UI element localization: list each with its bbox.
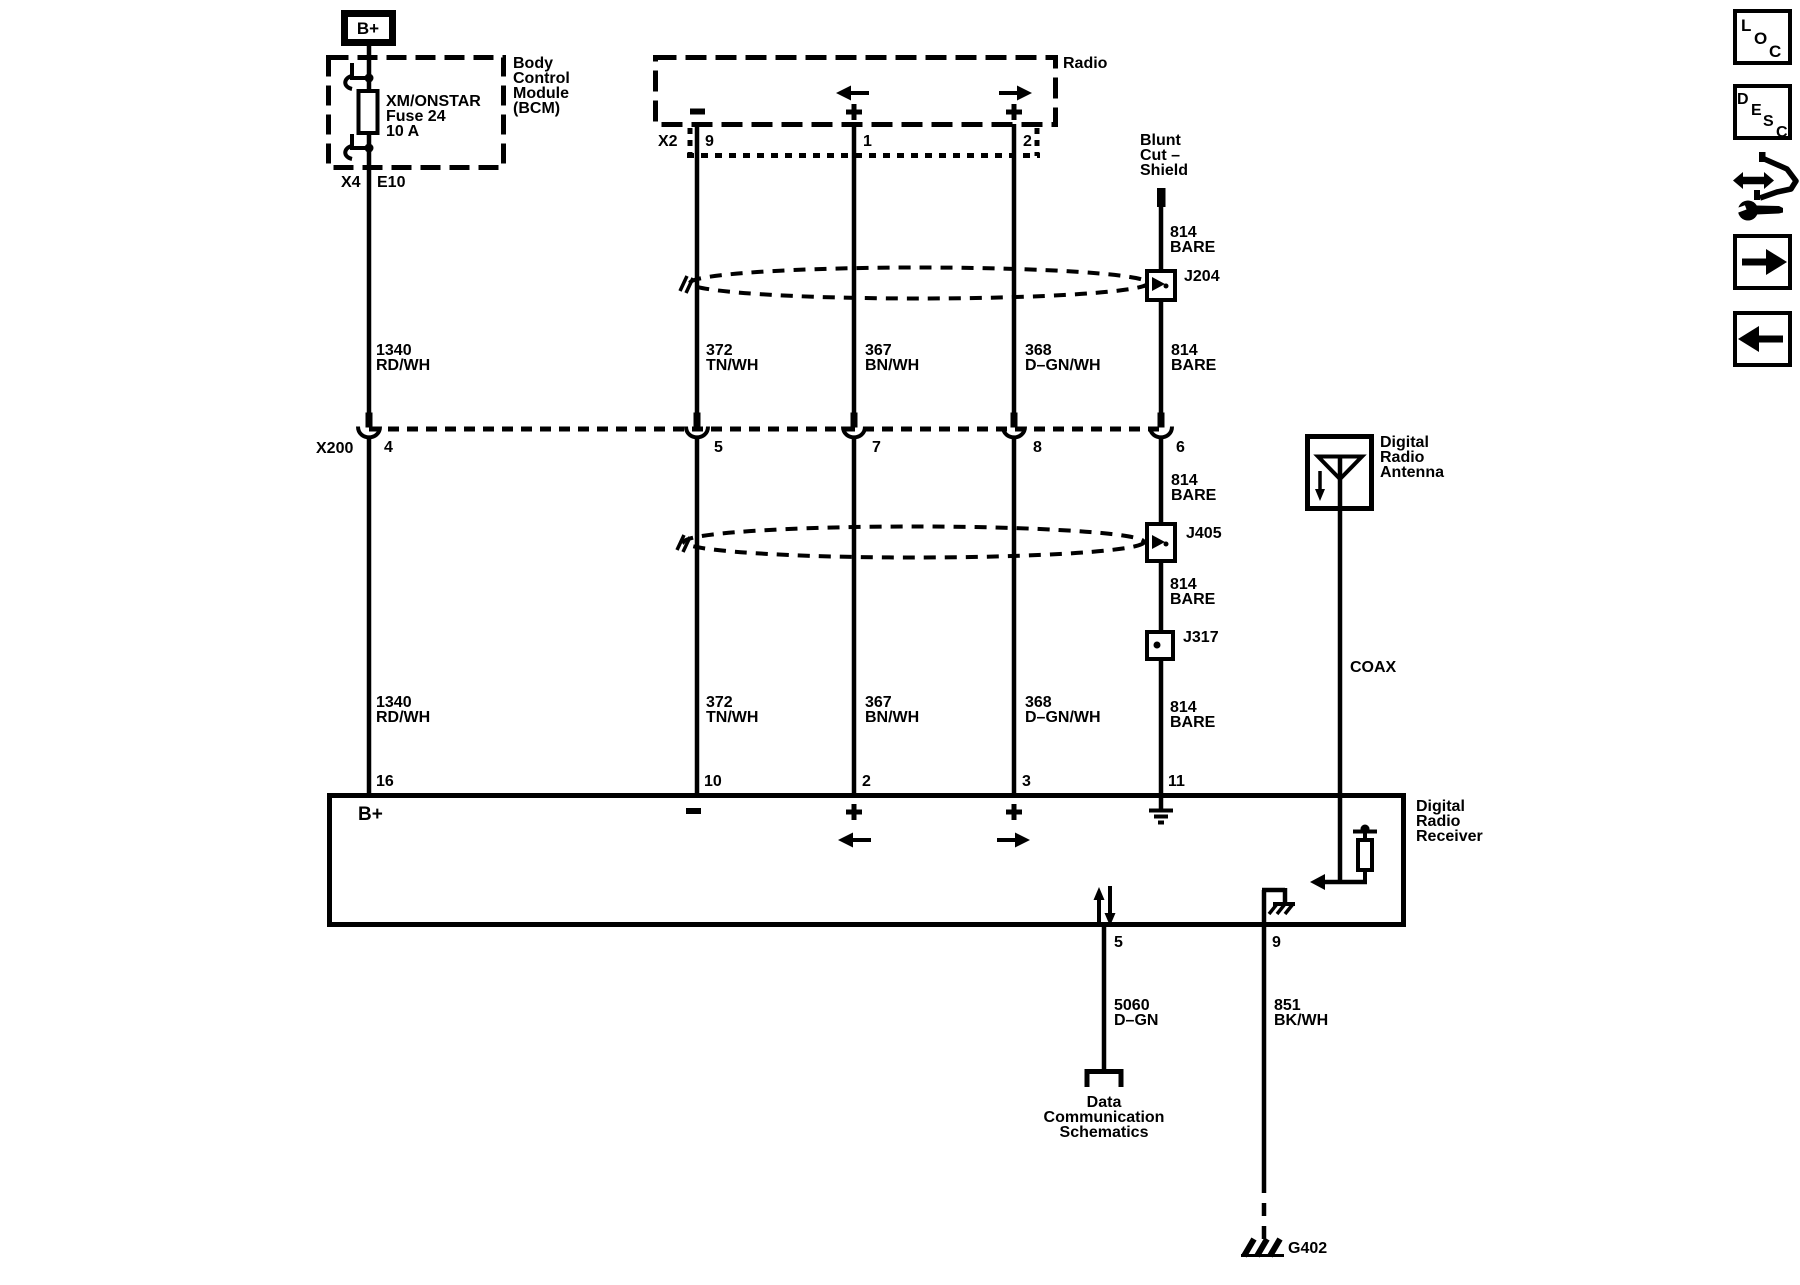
BCM dashed outline box bbox=[329, 58, 504, 168]
icon DESC box bbox=[1735, 86, 1790, 141]
label Digital Radio Antenna bbox=[1380, 434, 1444, 481]
ground G402 bbox=[1241, 1239, 1284, 1256]
wire labels row 2 bbox=[376, 694, 1216, 731]
coax wire antenna to receiver bbox=[1338, 509, 1343, 882]
radio connector X2 dotted face bbox=[687, 128, 1040, 156]
fuse clip terminal top bbox=[345, 63, 373, 89]
wire 372 TN/WH X200 to receiver pin 10 bbox=[695, 438, 700, 795]
svg-text:(BCM): (BCM) bbox=[513, 100, 560, 117]
twisted pair ellipse lower bbox=[677, 527, 1144, 558]
twisted pair ellipse upper bbox=[680, 268, 1148, 299]
svg-text:7: 7 bbox=[872, 439, 881, 456]
svg-text:C: C bbox=[1776, 124, 1788, 141]
svg-text:5: 5 bbox=[1114, 934, 1123, 951]
svg-text:BARE: BARE bbox=[1170, 591, 1216, 608]
svg-text:D–GN/WH: D–GN/WH bbox=[1025, 709, 1101, 726]
wire 814 BARE J317 to receiver pin 11 bbox=[1159, 658, 1164, 795]
svg-text:J317: J317 bbox=[1183, 629, 1219, 646]
svg-text:Schematics: Schematics bbox=[1060, 1124, 1149, 1141]
svg-text:COAX: COAX bbox=[1350, 659, 1397, 676]
svg-text:D–GN: D–GN bbox=[1114, 1012, 1158, 1029]
svg-text:8: 8 bbox=[1033, 439, 1042, 456]
fuse clip terminal bottom bbox=[345, 134, 373, 159]
svg-text:J204: J204 bbox=[1184, 268, 1220, 285]
X200 terminal pin 5 bbox=[686, 413, 708, 438]
svg-text:2: 2 bbox=[862, 773, 871, 790]
wire labels row 1 bbox=[376, 342, 1217, 374]
blunt cut shield end blob bbox=[1157, 188, 1166, 207]
label X200 and pin numbers bbox=[316, 439, 1185, 457]
svg-text:3: 3 bbox=[1022, 773, 1031, 790]
svg-text:4: 4 bbox=[384, 439, 393, 456]
wire B+ to fuse bbox=[367, 44, 372, 93]
wire 1340 RD/WH fuse to X200 bbox=[367, 133, 372, 413]
receiver right arrow bbox=[997, 833, 1030, 848]
svg-text:10 A: 10 A bbox=[386, 123, 420, 140]
receiver antenna termination resistor bbox=[1353, 825, 1377, 883]
svg-text:5: 5 bbox=[714, 439, 723, 456]
off page connector bracket bbox=[1087, 1072, 1121, 1088]
svg-text:Shield: Shield bbox=[1140, 162, 1188, 179]
label 814 BARE middle bbox=[1170, 576, 1216, 608]
icon wrench and arrows bbox=[1733, 152, 1796, 221]
svg-text:RD/WH: RD/WH bbox=[376, 709, 430, 726]
splice J405 bbox=[1147, 524, 1175, 561]
radio minus terminal bbox=[690, 109, 705, 115]
svg-text:D–GN/WH: D–GN/WH bbox=[1025, 357, 1101, 374]
wire 5060 D-GN receiver pin 5 bbox=[1102, 927, 1107, 1070]
wire 814 BARE J204 to X200 bbox=[1159, 300, 1164, 413]
svg-text:G402: G402 bbox=[1288, 1240, 1327, 1257]
svg-text:1: 1 bbox=[863, 133, 872, 150]
svg-text:E10: E10 bbox=[377, 174, 406, 191]
svg-text:10: 10 bbox=[704, 773, 722, 790]
wire 814 BARE J405 to J317 bbox=[1159, 561, 1164, 633]
svg-text:B+: B+ bbox=[358, 804, 383, 825]
connector label X4 E10 bbox=[341, 174, 406, 191]
svg-text:Antenna: Antenna bbox=[1380, 464, 1444, 481]
svg-text:2: 2 bbox=[1023, 133, 1032, 150]
Radio dashed outline box bbox=[656, 58, 1056, 125]
receiver data up down arrows bbox=[1094, 886, 1116, 926]
radio plus terminal pin 2 bbox=[1006, 104, 1022, 120]
wire 814 BARE X200 to J405 bbox=[1159, 438, 1164, 525]
radio plus terminal pin 1 bbox=[846, 104, 862, 120]
receiver pin numbers bbox=[376, 773, 1185, 790]
icon arrow right box bbox=[1735, 236, 1790, 288]
receiver coax arrow bbox=[1310, 874, 1367, 890]
svg-text:BARE: BARE bbox=[1170, 239, 1216, 256]
svg-text:BK/WH: BK/WH bbox=[1274, 1012, 1328, 1029]
svg-text:RD/WH: RD/WH bbox=[376, 357, 430, 374]
svg-text:E: E bbox=[1751, 102, 1762, 119]
wire dashed to G402 bbox=[1262, 1180, 1267, 1240]
wire 372 TN/WH radio pin9 to X200 bbox=[695, 124, 700, 413]
splice J317 bbox=[1147, 632, 1173, 659]
svg-text:L: L bbox=[1741, 16, 1751, 35]
receiver internal chassis ground pin 9 bbox=[1262, 888, 1295, 926]
receiver bottom pin numbers bbox=[1114, 934, 1281, 951]
label Data Communication Schematics bbox=[1044, 1094, 1165, 1141]
wire 1340 RD/WH X200 to receiver pin 16 bbox=[367, 438, 372, 795]
splice J204 bbox=[1147, 271, 1175, 300]
label 814 BARE below X200 bbox=[1171, 472, 1217, 504]
label 5060 D-GN bbox=[1114, 997, 1158, 1029]
label Body Control Module (BCM) bbox=[513, 55, 570, 117]
X200 inline connector dashed line bbox=[369, 427, 1161, 432]
wire 851 BK/WH receiver pin 9 bbox=[1262, 927, 1267, 1180]
receiver minus terminal bbox=[686, 808, 701, 814]
svg-text:BN/WH: BN/WH bbox=[865, 709, 919, 726]
svg-text:Receiver: Receiver bbox=[1416, 828, 1483, 845]
wire 368 D-GN/WH X200 to receiver pin 3 bbox=[1012, 438, 1017, 795]
svg-text:J405: J405 bbox=[1186, 525, 1222, 542]
svg-text:S: S bbox=[1763, 113, 1774, 130]
label 814 BARE upper bbox=[1170, 224, 1216, 256]
receiver left arrow bbox=[838, 833, 871, 848]
svg-text:X2: X2 bbox=[658, 133, 678, 150]
svg-text:11: 11 bbox=[1168, 773, 1185, 790]
wire 367 BN/WH radio pin1 to X200 bbox=[852, 124, 857, 413]
X200 terminal pin 6 bbox=[1150, 413, 1172, 438]
svg-text:16: 16 bbox=[376, 773, 394, 790]
receiver plus terminal pin 3 bbox=[1006, 804, 1022, 820]
label Digital Radio Receiver bbox=[1416, 798, 1483, 845]
svg-text:TN/WH: TN/WH bbox=[706, 357, 758, 374]
label X2 and radio pin numbers bbox=[658, 133, 1032, 150]
svg-text:X200: X200 bbox=[316, 440, 353, 457]
svg-text:C: C bbox=[1769, 42, 1781, 61]
svg-text:6: 6 bbox=[1176, 439, 1185, 456]
Digital Radio Receiver box bbox=[330, 796, 1404, 925]
wire 814 BARE shield to J204 bbox=[1159, 205, 1164, 270]
wire 367 BN/WH X200 to receiver pin 2 bbox=[852, 438, 857, 795]
svg-text:BARE: BARE bbox=[1171, 487, 1217, 504]
label XM/ONSTAR Fuse 24 10 A bbox=[386, 93, 481, 140]
fuse F24 bbox=[359, 91, 378, 133]
svg-text:BN/WH: BN/WH bbox=[865, 357, 919, 374]
receiver internal ground pin 11 bbox=[1149, 795, 1173, 823]
X200 terminal pin 7 bbox=[843, 413, 865, 438]
svg-text:Radio: Radio bbox=[1063, 55, 1108, 72]
svg-text:B+: B+ bbox=[357, 19, 379, 38]
svg-text:BARE: BARE bbox=[1170, 714, 1216, 731]
svg-text:O: O bbox=[1754, 29, 1767, 48]
svg-text:9: 9 bbox=[1272, 934, 1281, 951]
svg-text:D: D bbox=[1737, 91, 1749, 108]
icon arrow left box bbox=[1735, 313, 1790, 365]
svg-text:X4: X4 bbox=[341, 174, 361, 191]
X200 terminal pin 8 bbox=[1003, 413, 1025, 438]
label 851 BK/WH bbox=[1274, 997, 1328, 1029]
radio right arrow bbox=[999, 86, 1032, 101]
B+ power symbol box bbox=[345, 14, 393, 43]
svg-text:BARE: BARE bbox=[1171, 357, 1217, 374]
svg-text:9: 9 bbox=[705, 133, 714, 150]
receiver plus terminal pin 2 bbox=[846, 804, 862, 820]
Digital Radio Antenna box bbox=[1308, 437, 1372, 512]
wire 368 D-GN/WH radio pin2 to X200 bbox=[1012, 124, 1017, 413]
radio left arrow bbox=[836, 86, 869, 101]
X200 terminal pin 4 bbox=[358, 413, 380, 438]
icon LOC box bbox=[1735, 11, 1790, 63]
label Blunt Cut - Shield bbox=[1140, 132, 1188, 179]
svg-text:TN/WH: TN/WH bbox=[706, 709, 758, 726]
